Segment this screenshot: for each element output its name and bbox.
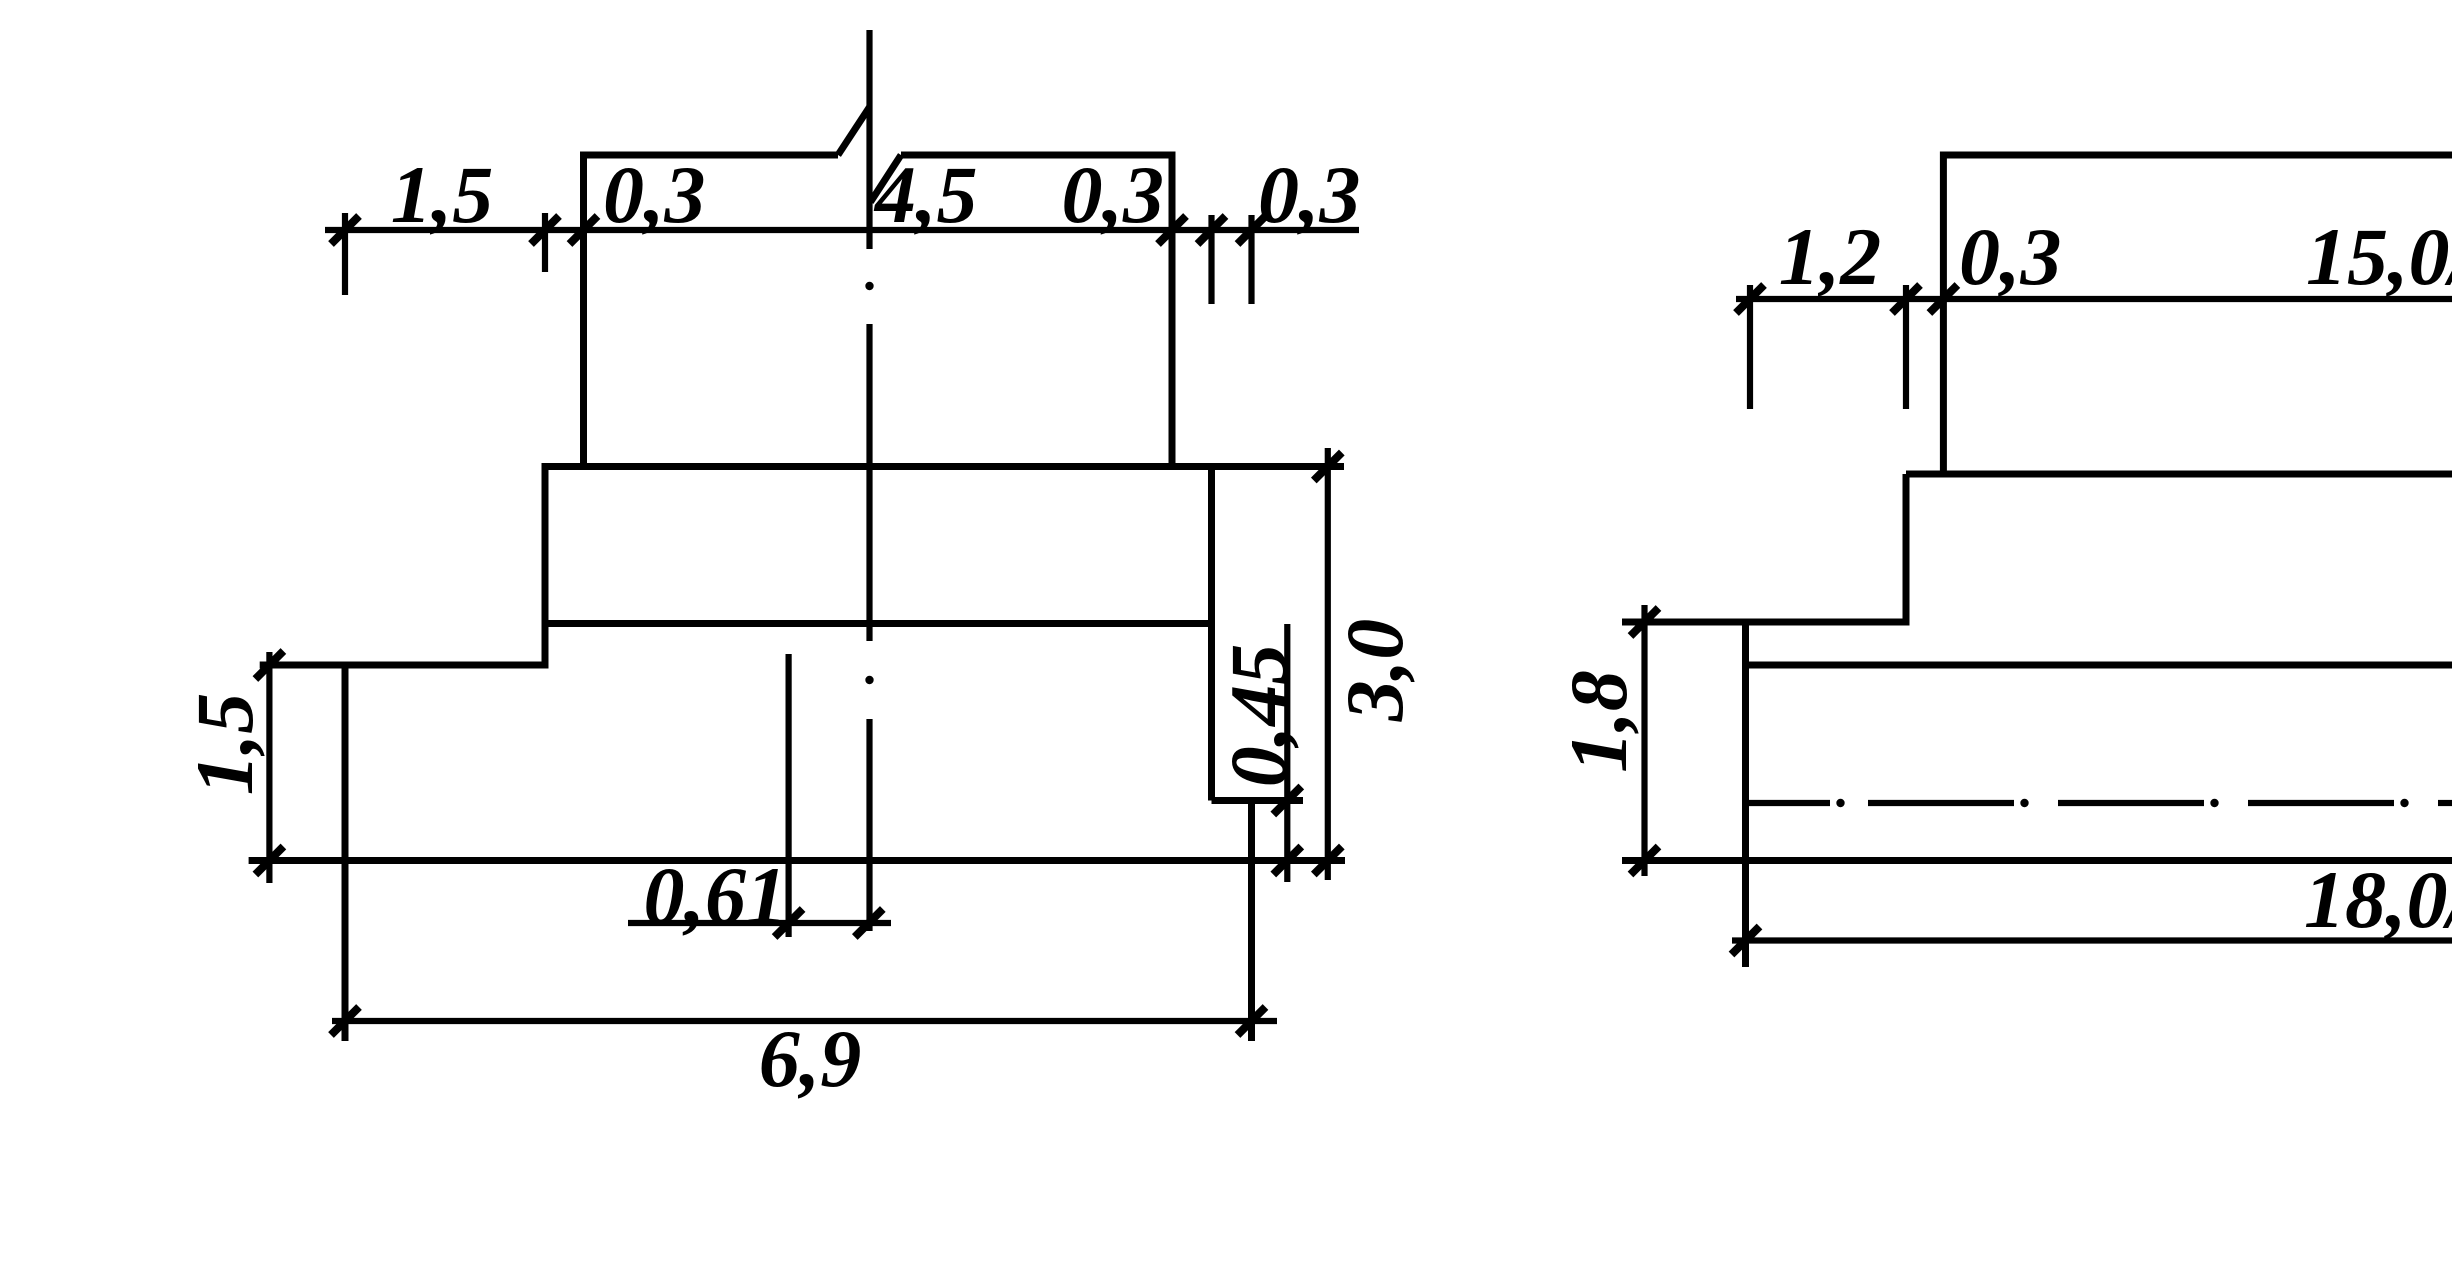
svg-text:4,5: 4,5 (873, 149, 978, 240)
arrow tick left of 6,9 dimension (331, 1007, 359, 1035)
slab left edge with extension down to 6,9 dimension (342, 665, 349, 1041)
extension line above abutment footing left edge (1903, 285, 1909, 409)
extension line above slab right edge (1248, 215, 1254, 304)
break mark upper diagonal (838, 107, 870, 155)
svg-text:1,2: 1,2 (1779, 211, 1882, 302)
arrow tick top of 1,5 dimension (255, 651, 283, 679)
extension line above abutment slab left edge (1747, 285, 1753, 409)
arrow tick at cap right on top dimension (1198, 216, 1226, 244)
abutment axis dot 2 (2020, 799, 2028, 807)
abutment axis dot 1 (1836, 799, 1844, 807)
dimension line 0,61 (628, 920, 891, 926)
abutment axis dash 4 (2248, 800, 2394, 806)
svg-text:3,0: 3,0 (1329, 619, 1420, 723)
svg-text:0,3: 0,3 (603, 149, 706, 240)
svg-text:1,5: 1,5 (179, 693, 270, 796)
extension line above cap left edge (542, 213, 548, 272)
arrow tick at wall left on 1,2 dimension (1929, 285, 1957, 313)
svg-text:15,0/2: 15,0/2 (2306, 211, 2452, 302)
svg-text:1,8: 1,8 (1553, 670, 1644, 773)
vertical dimension line 1,8 (1641, 605, 1647, 876)
pier column left edge (580, 152, 587, 467)
pier column top edge right part (901, 152, 1176, 159)
abutment wall top edge (1943, 152, 2452, 159)
svg-text:0,3: 0,3 (1258, 149, 1361, 240)
footing cap top edge with extension to 3,0 dimension (545, 463, 1344, 470)
abutment axis dash 1 (1746, 800, 1831, 806)
pier axis dot 2 (865, 676, 873, 684)
svg-text:1,5: 1,5 (391, 149, 494, 240)
abutment footing left edge (1903, 474, 1910, 622)
dimension line 1,2 / 0,3 / 15,0 (1736, 296, 2452, 302)
svg-text:0,45: 0,45 (1213, 644, 1304, 788)
arrow tick at cap left on top dimension (531, 216, 559, 244)
arrow tick at slab left on top dimension (331, 216, 359, 244)
bottom dimension line 18,0 (1732, 937, 2452, 943)
abutment axis dot 3 (2210, 799, 2218, 807)
arrow tick top of 3,0 dimension (1314, 453, 1342, 481)
abutment axis dot 4 (2400, 799, 2408, 807)
arrow tick bottom of 3,0 dimension (1314, 847, 1342, 875)
abutment slab left edge with extension down to 18,0 dimension (1742, 622, 1749, 967)
svg-text:0,3: 0,3 (1959, 211, 2062, 302)
abutment slab bottom edge (1622, 857, 2452, 864)
svg-text:18,0/2: 18,0/2 (2304, 854, 2452, 945)
break mark lower diagonal (871, 155, 902, 202)
vertical dimension line 0,45 (1284, 624, 1290, 882)
arrow tick left of 18,0 dimension (1732, 927, 1760, 955)
abutment axis dash 2 (1868, 800, 2014, 806)
right vertical dimension line 3,0 (1325, 448, 1331, 880)
arrow tick at column right on top dimension (1158, 216, 1186, 244)
pier column top edge left part (580, 152, 838, 159)
right step bottom edge with extension to 0,45 dimension (1212, 797, 1304, 804)
footing cap right edge (1208, 463, 1215, 801)
arrow tick bottom of 1,8 dimension (1631, 847, 1659, 875)
top dimension line (325, 227, 1359, 233)
pier axis dash 1 (866, 324, 872, 641)
slab bottom edge with extensions both sides (249, 857, 1345, 864)
arrow tick bottom of 1,5 dimension (255, 847, 283, 875)
left vertical dimension line 1,5 (266, 652, 272, 883)
abutment axis dash 5 (2438, 800, 2452, 806)
pier axis dot 1 (865, 282, 873, 290)
slab top left ledge with extension to 1,5 dimension (260, 662, 549, 669)
arrow tick at slab left on 1,2 dimension (1736, 285, 1764, 313)
pier axis upper solid segment (866, 30, 872, 249)
extension line above slab left edge (342, 213, 348, 295)
svg-text:0,3: 0,3 (1062, 149, 1165, 240)
arrow tick at footing left on 1,2 dimension (1892, 285, 1920, 313)
arrow tick bottom of 0,45 dimension (1273, 847, 1301, 875)
footing cap bottom edge (545, 620, 1212, 627)
footing cap left edge (542, 463, 549, 665)
arrow tick at slab right on top dimension (1238, 216, 1266, 244)
extension line above cap right edge (1208, 215, 1214, 304)
bottom dimension line 6,9 (332, 1018, 1277, 1024)
abutment axis dash 3 (2058, 800, 2204, 806)
abutment wall left edge (1940, 152, 1947, 475)
pier axis dash 2 (866, 719, 872, 931)
arrow tick top of 0,45 dimension (1273, 787, 1301, 815)
pier column right edge (1169, 152, 1176, 467)
slab right edge with extension down to 6,9 dimension (1248, 801, 1255, 1042)
arrow tick left of 0,61 dimension (775, 909, 803, 937)
svg-text:6,9: 6,9 (759, 1013, 862, 1104)
abutment slab top line (1746, 662, 2452, 669)
abutment footing ledge top edge with extension to 1,8 dimension (1622, 619, 1910, 626)
extension line for 0,61 (785, 654, 791, 937)
arrow tick top of 1,8 dimension (1631, 608, 1659, 636)
svg-text:0,61: 0,61 (644, 850, 788, 941)
arrow tick at column left on top dimension (570, 216, 598, 244)
abutment wall bottom / footing top edge (1906, 471, 2452, 478)
arrow tick right of 0,61 dimension (855, 909, 883, 937)
arrow tick right of 6,9 dimension (1238, 1007, 1266, 1035)
